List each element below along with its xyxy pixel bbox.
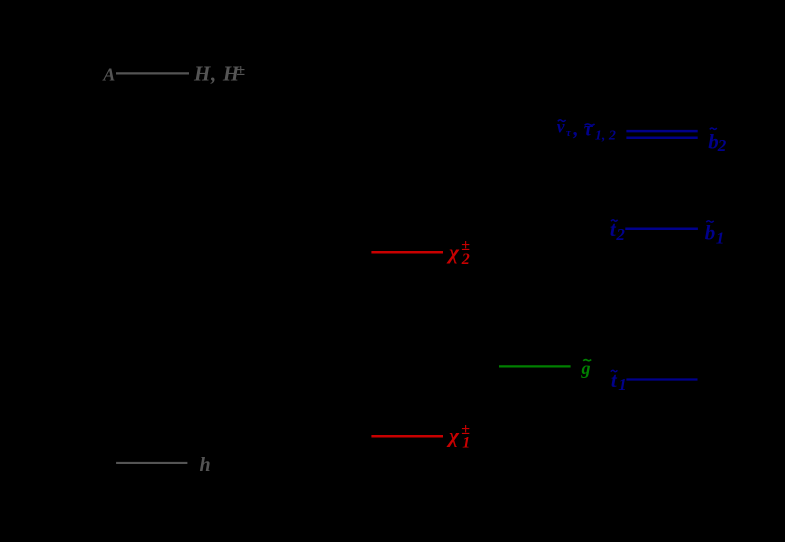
svg-text:A: A (102, 64, 115, 84)
svg-text:1: 1 (618, 375, 627, 394)
svg-text:,: , (572, 116, 578, 140)
svg-text:±: ± (236, 62, 245, 79)
svg-text:ν: ν (557, 117, 565, 137)
level line h (light Higgs) (116, 462, 187, 464)
label chi1± (chargino1) (446, 421, 470, 451)
label nu_tau~, tau~_1,2 (557, 116, 616, 144)
label t~1 (stop1) (611, 368, 627, 394)
svg-text:g: g (581, 358, 591, 378)
svg-text:χ: χ (446, 423, 460, 447)
svg-text:τ: τ (584, 118, 594, 140)
label b~2 (sbottom2) (708, 128, 727, 155)
label b~1 (sbottom1) (705, 220, 725, 247)
svg-text:1: 1 (462, 434, 470, 451)
label chi2± (chargino2) (446, 237, 470, 268)
level line chargino1 (371, 435, 443, 438)
svg-text:χ: χ (446, 240, 460, 264)
svg-text:1: 1 (716, 228, 725, 247)
svg-text:2: 2 (615, 225, 625, 244)
level line stop1 (626, 378, 697, 380)
level line chargino2 (371, 251, 443, 254)
svg-text:1, 2: 1, 2 (595, 128, 616, 143)
label H, H± (193, 62, 245, 86)
label g~ (gluino) (581, 358, 592, 378)
svg-text:2: 2 (461, 251, 470, 268)
svg-text:b: b (705, 220, 716, 244)
label t~2 (stop2) (610, 217, 626, 244)
level line gluino (499, 365, 571, 367)
svg-text:H, H: H, H (193, 62, 240, 86)
svg-text:2: 2 (717, 136, 727, 155)
svg-text:h: h (200, 454, 211, 476)
double level line sneutrino_tau / stau_1,2 and sbottom2 (626, 131, 697, 138)
level line A / H,H± (heavy Higgs) (116, 72, 189, 74)
level line stop2 / sbottom1 (625, 227, 698, 230)
